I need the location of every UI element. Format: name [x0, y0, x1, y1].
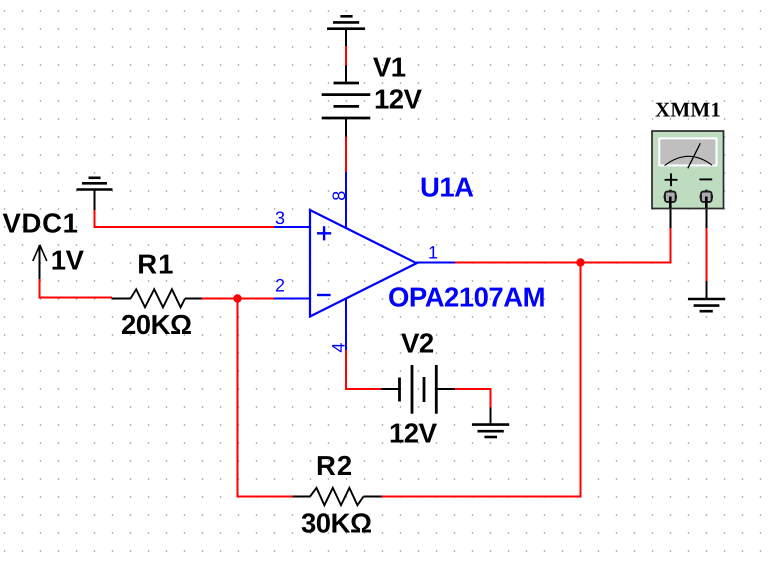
svg-text:OPA2107AM: OPA2107AM [388, 282, 545, 313]
svg-text:4: 4 [329, 343, 349, 353]
svg-text:20KΩ: 20KΩ [121, 309, 192, 340]
svg-text:U1A: U1A [420, 172, 474, 203]
svg-text:R1: R1 [137, 249, 174, 280]
svg-text:XMM1: XMM1 [655, 98, 721, 122]
svg-text:12V: 12V [374, 84, 423, 115]
svg-text:R2: R2 [316, 450, 353, 481]
svg-text:VDC1: VDC1 [3, 208, 79, 239]
svg-text:1V: 1V [51, 245, 85, 276]
svg-text:1: 1 [428, 243, 438, 263]
svg-text:30KΩ: 30KΩ [301, 508, 372, 539]
svg-text:3: 3 [275, 208, 285, 228]
svg-text:V1: V1 [373, 52, 406, 83]
svg-text:12V: 12V [389, 418, 438, 449]
svg-text:2: 2 [275, 276, 285, 296]
svg-text:V2: V2 [401, 328, 434, 359]
svg-text:8: 8 [329, 191, 349, 201]
